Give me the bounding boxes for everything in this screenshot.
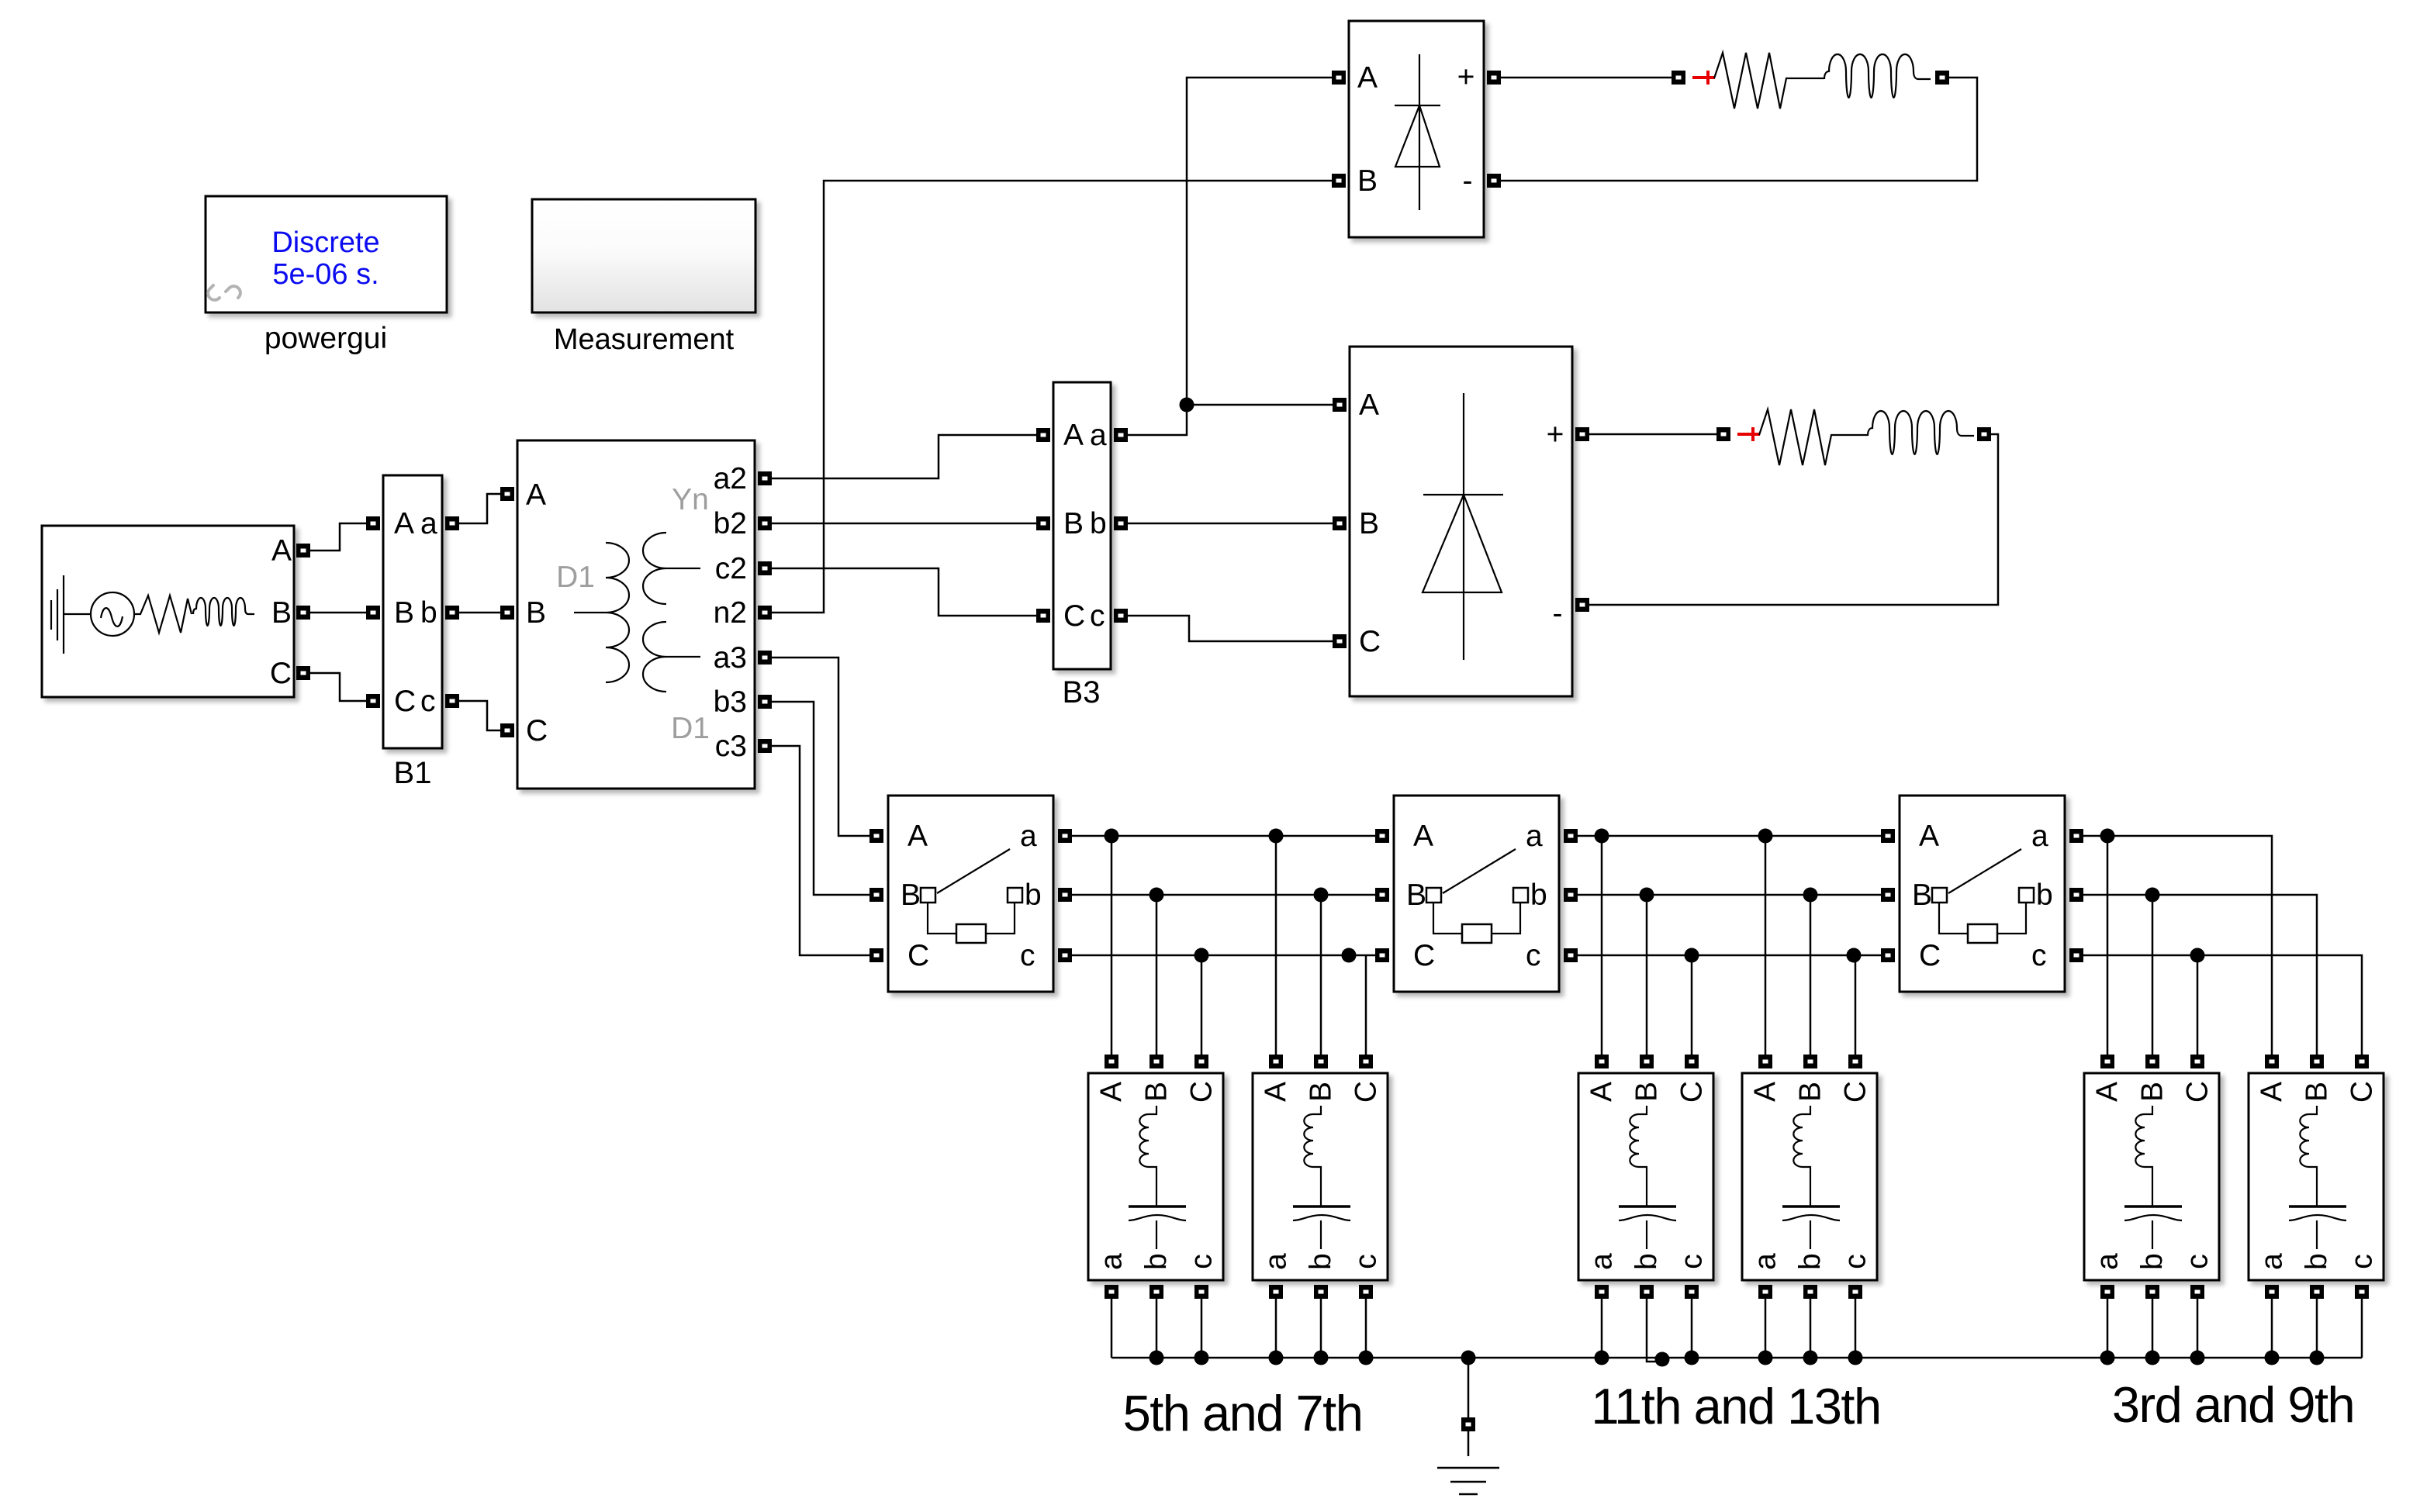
wire filter4 a to rail xyxy=(1765,1296,1767,1358)
svg-text:B3: B3 xyxy=(1063,675,1101,709)
svg-text:B: B xyxy=(1359,507,1379,540)
rail dot f5a xyxy=(2100,1351,2115,1365)
svg-text:A: A xyxy=(1063,419,1084,452)
wire drop to filter1 A xyxy=(1111,836,1113,1055)
junction dot filter5 A xyxy=(2100,829,2115,844)
wire c2 to B3 C xyxy=(772,568,1036,616)
filter block 3 (11th) xyxy=(1578,1055,1713,1299)
wire bus c breaker3 to filter6 C xyxy=(2083,955,2362,1055)
inductor L1 xyxy=(1824,54,1931,98)
svg-text:11th and 13th: 11th and 13th xyxy=(1591,1378,1880,1434)
wire drop to filter5 C xyxy=(2197,955,2199,1055)
wire B3 a to node N1 xyxy=(1128,405,1187,435)
junction dot filter4 C xyxy=(1847,948,1862,963)
svg-text:n2: n2 xyxy=(714,596,747,630)
measurement block B1 xyxy=(366,475,459,790)
wire B1 c to transformer C xyxy=(459,701,500,730)
breaker switch block 2 xyxy=(1375,796,1578,992)
junction dot filter4 A xyxy=(1758,829,1773,844)
wire filter2 c to rail xyxy=(1365,1296,1367,1358)
wire b3 to breaker 1 input B xyxy=(772,702,869,895)
wire B1 b to transformer B xyxy=(459,612,500,614)
zigzag transformer block D1/Yn xyxy=(500,440,772,789)
svg-text:3rd and 9th: 3rd and 9th xyxy=(2112,1376,2354,1433)
diode rectifier bridge U2 (middle, 3-arm) xyxy=(1333,347,1589,696)
svg-text:c2: c2 xyxy=(715,552,747,585)
powergui block xyxy=(206,196,447,355)
wire source B to B1 B xyxy=(310,612,366,614)
rail dot f5c xyxy=(2190,1351,2205,1365)
measurement block B3 xyxy=(1036,382,1128,709)
junction dot filter2 A xyxy=(1269,829,1284,844)
svg-text:D1: D1 xyxy=(556,561,595,594)
wire drop to filter3 C xyxy=(1691,955,1693,1055)
wire n2 to bridge U1 input B xyxy=(772,181,1332,613)
wire filter2 a to rail xyxy=(1275,1296,1277,1358)
svg-text:a: a xyxy=(1090,419,1107,452)
svg-text:a2: a2 xyxy=(714,462,747,495)
wire bus a breaker1 to breaker2 xyxy=(1072,835,1375,837)
filter block 5 (3rd) xyxy=(2084,1055,2219,1299)
svg-text:Yn: Yn xyxy=(672,483,709,516)
wire drop to filter5 A xyxy=(2107,836,2109,1055)
svg-text:B: B xyxy=(394,596,414,630)
rail dot f4a xyxy=(1758,1351,1773,1365)
wire filter2 b to rail xyxy=(1320,1296,1322,1358)
svg-text:b3: b3 xyxy=(714,685,747,719)
svg-text:c: c xyxy=(1090,599,1105,633)
svg-text:B: B xyxy=(1357,164,1378,198)
diode rectifier bridge U1 (top, 2-arm) xyxy=(1332,21,1501,237)
wire rail to ground port xyxy=(1468,1358,1470,1417)
filter block 2 (7th) xyxy=(1253,1055,1388,1299)
svg-text:A: A xyxy=(526,478,546,512)
junction dot filter2 C xyxy=(1342,948,1357,963)
wire filter4 c to rail xyxy=(1855,1296,1857,1358)
wire filter1 a to rail xyxy=(1111,1296,1113,1358)
rail dot f2b xyxy=(1314,1351,1329,1365)
rail dot f1c xyxy=(1194,1351,1209,1365)
wire filter6 c to rail xyxy=(2361,1296,2363,1358)
wire drop to filter3 A xyxy=(1601,836,1603,1055)
wire drop to filter4 B xyxy=(1810,895,1812,1055)
wire node N1 up to bridge U1 input A xyxy=(1187,78,1332,405)
series RL load 2 (middle) xyxy=(1716,409,1991,465)
svg-text:C: C xyxy=(1063,599,1085,633)
wire b2 to B3 B xyxy=(772,523,1036,525)
svg-text:a3: a3 xyxy=(714,641,747,675)
wire filter4 b to rail xyxy=(1810,1296,1812,1358)
ground port xyxy=(1461,1417,1475,1431)
rail dot f5b xyxy=(2145,1351,2160,1365)
wire B1 a to transformer A xyxy=(459,494,500,523)
wire bus b breaker1 to breaker2 xyxy=(1072,894,1375,896)
wire bus c breaker1 to breaker2 xyxy=(1072,954,1375,957)
wire filter1 c to rail xyxy=(1201,1296,1203,1358)
wire source C to B1 C xyxy=(310,673,366,701)
junction dot filter5 C xyxy=(2190,948,2205,963)
svg-text:C: C xyxy=(526,714,548,747)
svg-text:b2: b2 xyxy=(714,507,747,540)
wire bus a breaker3 to filter6 A xyxy=(2083,836,2272,1055)
wire filter3 c to rail xyxy=(1691,1296,1693,1358)
secondary winding Yn upper xyxy=(643,533,700,604)
svg-text:b: b xyxy=(1090,507,1107,540)
wire drop to filter1 C xyxy=(1201,955,1203,1055)
source AC sine symbol xyxy=(91,592,134,636)
wire filter6 b to rail xyxy=(2316,1296,2318,1358)
svg-text:a: a xyxy=(420,507,437,540)
source internal ground xyxy=(51,575,91,654)
svg-text:C: C xyxy=(270,657,292,690)
wire filter3 b to rail xyxy=(1647,1296,1662,1362)
source internal resistor xyxy=(134,595,192,633)
svg-text:5e-06 s.: 5e-06 s. xyxy=(272,258,379,291)
wire U1 + output to RL load 1 xyxy=(1501,77,1672,79)
svg-text:C: C xyxy=(394,685,416,718)
wire filter3 a to rail xyxy=(1601,1296,1603,1358)
rail dot f3b xyxy=(1655,1352,1670,1367)
svg-text:5th and 7th: 5th and 7th xyxy=(1123,1385,1363,1441)
wire bus b breaker2 to breaker3 xyxy=(1578,894,1881,896)
svg-text:-: - xyxy=(1553,597,1563,630)
wire drop to filter2 B xyxy=(1320,895,1322,1055)
rail dot f4b xyxy=(1803,1351,1818,1365)
wire filter5 c to rail xyxy=(2197,1296,2199,1358)
svg-text:A: A xyxy=(1357,61,1378,95)
wire bus b breaker3 to filter6 B xyxy=(2083,895,2317,1055)
svg-text:c3: c3 xyxy=(715,730,747,763)
neutral rail xyxy=(1111,1357,2362,1359)
rail dot f6b xyxy=(2310,1351,2325,1365)
resistor R1 xyxy=(1714,53,1824,109)
wire drop to filter3 B xyxy=(1646,895,1648,1055)
rail dot f4c xyxy=(1848,1351,1863,1365)
junction node N1 xyxy=(1180,398,1194,413)
diode symbol D (middle bridge) xyxy=(1423,393,1503,660)
svg-text:B1: B1 xyxy=(394,756,432,790)
wire node N1 to bridge U2 input A xyxy=(1187,404,1333,406)
rail dot f2c xyxy=(1359,1351,1374,1365)
three-phase source block xyxy=(42,526,310,697)
Measurement block xyxy=(532,199,755,356)
ground symbol xyxy=(1437,1431,1499,1494)
wire source A to B1 A xyxy=(310,523,366,551)
wire drop to filter4 A xyxy=(1765,836,1767,1055)
wire U2 + output to RL load 2 xyxy=(1589,433,1716,436)
junction dot filter2 B xyxy=(1314,888,1329,903)
secondary winding D1 lower xyxy=(643,622,700,692)
rail dot f1b xyxy=(1149,1351,1164,1365)
junction dot filter5 B xyxy=(2145,888,2160,903)
wire filter1 b to rail xyxy=(1156,1296,1158,1358)
rail dot f6a xyxy=(2265,1351,2280,1365)
wire filter6 a to rail xyxy=(2271,1296,2273,1358)
junction dot filter1 C xyxy=(1194,948,1209,963)
wire filter5 b to rail xyxy=(2152,1296,2154,1358)
wire drop to filter2 C xyxy=(1365,955,1367,1055)
junction dot filter3 C xyxy=(1685,948,1699,963)
wire B3 c to bridge U2 input C xyxy=(1128,616,1333,641)
svg-text:Measurement: Measurement xyxy=(554,323,735,356)
filter block 6 (9th) xyxy=(2249,1055,2384,1299)
filter block 4 (13th) xyxy=(1742,1055,1877,1299)
svg-text:-: - xyxy=(1463,164,1473,198)
wire RL load 1 return to U1 - output xyxy=(1501,78,1977,181)
wire bus c breaker2 to breaker3 xyxy=(1578,954,1881,957)
wire filter5 a to rail xyxy=(2107,1296,2109,1358)
series RL load 1 (top) xyxy=(1672,53,1949,109)
svg-text:+: + xyxy=(1547,418,1564,451)
wire drop to filter5 B xyxy=(2152,895,2154,1055)
wire a3 to breaker 1 input A xyxy=(772,658,869,836)
breaker switch block 3 xyxy=(1881,796,2083,992)
rail dot f3c xyxy=(1685,1351,1699,1365)
svg-text:c: c xyxy=(420,685,436,718)
inductor L2 xyxy=(1868,411,1974,454)
svg-text:D1: D1 xyxy=(671,712,710,745)
svg-text:A: A xyxy=(271,534,292,568)
breaker switch block 1 xyxy=(869,796,1072,992)
rail dot f3a xyxy=(1595,1351,1609,1365)
filter block 1 (5th) xyxy=(1088,1055,1223,1299)
primary winding D1 xyxy=(574,543,629,682)
junction dot filter1 B xyxy=(1149,888,1164,903)
resistor R2 xyxy=(1759,409,1868,465)
svg-text:B: B xyxy=(526,596,546,630)
svg-text:B: B xyxy=(1063,507,1084,540)
svg-text:b: b xyxy=(420,596,437,630)
wire drop to filter4 C xyxy=(1855,955,1857,1055)
svg-text:A: A xyxy=(1359,388,1379,422)
svg-text:A: A xyxy=(394,507,414,540)
svg-text:powergui: powergui xyxy=(264,322,387,355)
junction dot filter3 B xyxy=(1640,888,1654,903)
wire c3 to breaker 1 input C xyxy=(772,746,869,955)
wire drop to filter1 B xyxy=(1156,895,1158,1055)
rail dot f2a xyxy=(1269,1351,1284,1365)
diode symbol D (top bridge) xyxy=(1395,54,1440,210)
wire drop to filter2 A xyxy=(1275,836,1277,1055)
source internal inductor xyxy=(193,598,254,626)
junction dot filter3 A xyxy=(1595,829,1609,844)
wire B3 b to bridge U2 input B xyxy=(1128,523,1333,525)
wire a2 to B3 A xyxy=(772,435,1036,478)
svg-text:Discrete: Discrete xyxy=(271,226,379,259)
wire bus a breaker2 to breaker3 xyxy=(1578,835,1881,837)
junction dot filter1 A xyxy=(1105,829,1119,844)
svg-text:C: C xyxy=(1359,625,1381,658)
junction dot filter4 B xyxy=(1803,888,1818,903)
svg-text:+: + xyxy=(1457,60,1475,94)
rail dot ground tap xyxy=(1461,1351,1476,1365)
svg-text:B: B xyxy=(271,596,292,630)
wire RL load 2 return to U2 - output xyxy=(1589,434,1998,605)
